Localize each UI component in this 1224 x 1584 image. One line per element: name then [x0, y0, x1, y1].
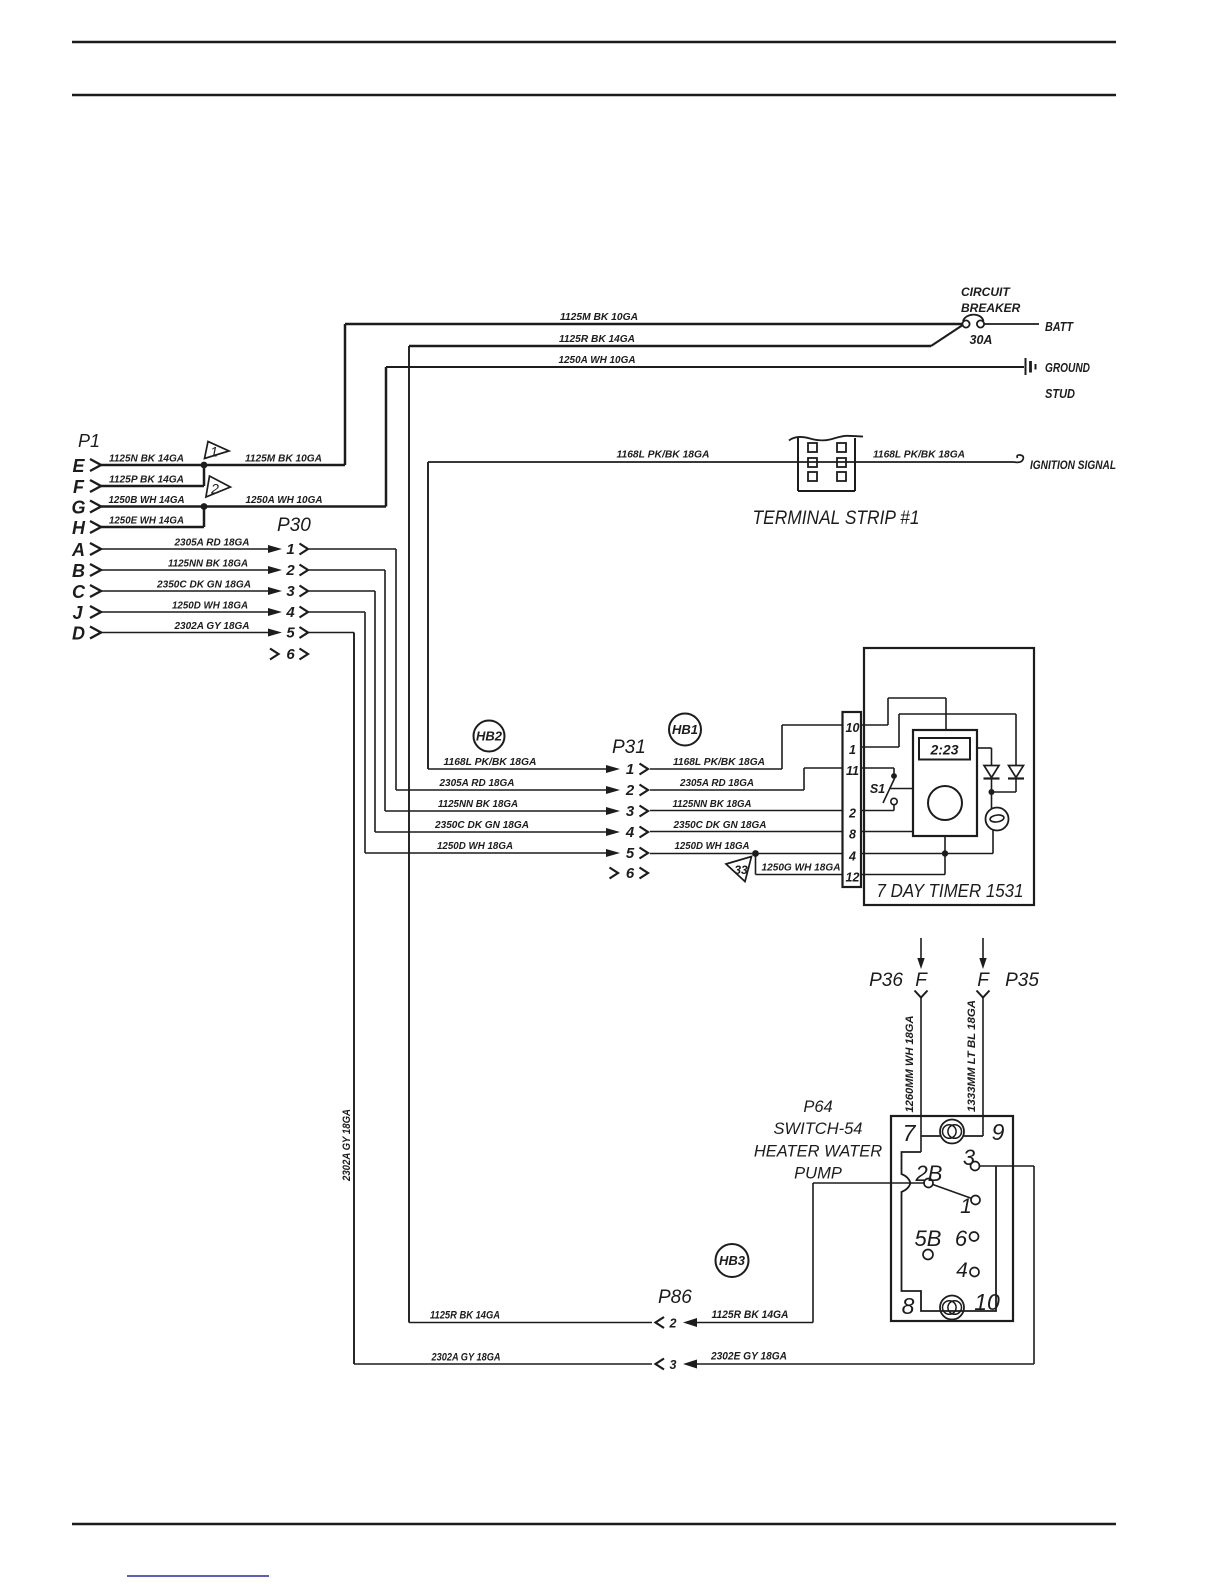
- svg-text:9: 9: [992, 1119, 1005, 1145]
- svg-text:HEATER WATER: HEATER WATER: [754, 1143, 882, 1161]
- svg-text:2305A RD 18GA: 2305A RD 18GA: [679, 777, 754, 789]
- svg-text:H: H: [72, 518, 86, 538]
- svg-text:5: 5: [286, 625, 295, 642]
- svg-text:1: 1: [849, 743, 856, 757]
- svg-text:1333MM LT BL 18GA: 1333MM LT BL 18GA: [966, 1000, 978, 1112]
- svg-text:11: 11: [846, 764, 859, 778]
- svg-text:2350C DK GN 18GA: 2350C DK GN 18GA: [434, 819, 529, 831]
- svg-text:P1: P1: [78, 431, 100, 451]
- svg-text:2350C DK GN 18GA: 2350C DK GN 18GA: [156, 579, 251, 591]
- svg-text:P35: P35: [1005, 970, 1039, 991]
- svg-text:30A: 30A: [970, 333, 993, 347]
- svg-text:F: F: [73, 477, 85, 497]
- svg-text:4: 4: [848, 850, 856, 864]
- svg-text:BREAKER: BREAKER: [961, 301, 1021, 315]
- svg-text:1168L PK/BK 18GA: 1168L PK/BK 18GA: [617, 449, 710, 461]
- svg-text:2: 2: [669, 1317, 677, 1331]
- svg-text:1: 1: [286, 541, 294, 558]
- svg-text:6: 6: [955, 1226, 968, 1251]
- svg-text:33: 33: [734, 863, 748, 877]
- svg-text:D: D: [72, 624, 85, 644]
- svg-text:10: 10: [846, 721, 860, 735]
- svg-text:GROUND: GROUND: [1045, 360, 1090, 375]
- svg-text:4: 4: [956, 1259, 968, 1282]
- svg-text:1125R BK 14GA: 1125R BK 14GA: [712, 1309, 789, 1321]
- svg-text:SWITCH-54: SWITCH-54: [774, 1120, 863, 1138]
- svg-text:2: 2: [848, 807, 856, 821]
- svg-text:2302A GY 18GA: 2302A GY 18GA: [341, 1109, 353, 1182]
- svg-text:1125R BK 14GA: 1125R BK 14GA: [430, 1310, 500, 1322]
- svg-text:HB3: HB3: [719, 1253, 746, 1268]
- svg-text:1250B WH 14GA: 1250B WH 14GA: [109, 494, 185, 506]
- svg-text:E: E: [72, 456, 85, 476]
- svg-text:1250D WH 18GA: 1250D WH 18GA: [437, 840, 513, 852]
- svg-text:1250D WH 18GA: 1250D WH 18GA: [675, 840, 750, 852]
- svg-text:1168L PK/BK 18GA: 1168L PK/BK 18GA: [444, 756, 537, 768]
- svg-text:6: 6: [626, 865, 635, 882]
- svg-text:J: J: [72, 603, 83, 623]
- svg-text:1: 1: [626, 761, 634, 778]
- svg-text:PUMP: PUMP: [794, 1165, 842, 1183]
- svg-text:2: 2: [625, 782, 635, 799]
- svg-text:P36: P36: [869, 970, 903, 991]
- svg-text:2305A RD 18GA: 2305A RD 18GA: [174, 537, 250, 549]
- svg-text:1125NN BK 18GA: 1125NN BK 18GA: [438, 798, 518, 810]
- svg-text:10: 10: [974, 1289, 1000, 1315]
- svg-text:1250G WH 18GA: 1250G WH 18GA: [762, 862, 841, 874]
- svg-text:3: 3: [963, 1145, 976, 1170]
- svg-text:P31: P31: [612, 737, 646, 758]
- svg-text:1125NN BK 18GA: 1125NN BK 18GA: [168, 558, 248, 570]
- svg-text:1250A WH 10GA: 1250A WH 10GA: [246, 494, 323, 506]
- svg-text:A: A: [71, 540, 85, 560]
- svg-text:4: 4: [625, 824, 635, 841]
- svg-text:2: 2: [285, 562, 295, 579]
- svg-text:3: 3: [286, 583, 295, 600]
- svg-text:3: 3: [670, 1358, 677, 1372]
- svg-text:8: 8: [849, 828, 856, 842]
- svg-text:2:23: 2:23: [929, 742, 958, 758]
- svg-text:1250A WH 10GA: 1250A WH 10GA: [559, 354, 636, 366]
- svg-text:2B: 2B: [915, 1161, 943, 1186]
- svg-text:P86: P86: [658, 1287, 692, 1308]
- svg-text:2305A RD 18GA: 2305A RD 18GA: [439, 777, 515, 789]
- svg-text:2302A GY 18GA: 2302A GY 18GA: [431, 1352, 501, 1364]
- svg-text:S1: S1: [870, 782, 885, 796]
- svg-text:1168L PK/BK 18GA: 1168L PK/BK 18GA: [873, 449, 965, 461]
- svg-text:1260MM WH 18GA: 1260MM WH 18GA: [904, 1015, 916, 1112]
- svg-text:1125NN BK 18GA: 1125NN BK 18GA: [673, 798, 752, 810]
- svg-text:6: 6: [286, 646, 295, 663]
- svg-text:1125R BK 14GA: 1125R BK 14GA: [559, 333, 635, 345]
- svg-text:B: B: [72, 561, 85, 581]
- svg-text:7: 7: [903, 1120, 917, 1146]
- svg-text:5: 5: [626, 845, 635, 862]
- svg-text:P64: P64: [803, 1098, 832, 1116]
- svg-text:IGNITION SIGNAL: IGNITION SIGNAL: [1030, 458, 1116, 472]
- svg-text:12: 12: [846, 871, 860, 885]
- svg-text:HB1: HB1: [672, 722, 698, 737]
- svg-text:F: F: [915, 970, 928, 991]
- svg-text:2350C DK GN 18GA: 2350C DK GN 18GA: [673, 819, 767, 831]
- svg-text:G: G: [71, 498, 85, 518]
- svg-text:8: 8: [902, 1293, 915, 1319]
- svg-text:3: 3: [626, 803, 635, 820]
- svg-text:CIRCUIT: CIRCUIT: [961, 285, 1011, 299]
- svg-text:5B: 5B: [915, 1226, 942, 1251]
- svg-text:1125P BK 14GA: 1125P BK 14GA: [109, 474, 184, 486]
- svg-text:1: 1: [960, 1195, 972, 1218]
- svg-text:TERMINAL STRIP #1: TERMINAL STRIP #1: [753, 508, 920, 529]
- svg-text:P30: P30: [277, 515, 311, 536]
- svg-text:STUD: STUD: [1045, 386, 1076, 401]
- svg-text:1: 1: [210, 444, 218, 460]
- svg-text:1125N BK 14GA: 1125N BK 14GA: [109, 453, 184, 465]
- svg-text:1125M BK 10GA: 1125M BK 10GA: [560, 311, 638, 323]
- svg-text:2302E GY 18GA: 2302E GY 18GA: [710, 1351, 787, 1363]
- svg-text:2302A GY 18GA: 2302A GY 18GA: [174, 620, 250, 632]
- svg-text:C: C: [72, 582, 86, 602]
- svg-text:1168L PK/BK 18GA: 1168L PK/BK 18GA: [673, 756, 765, 768]
- svg-text:1250D WH 18GA: 1250D WH 18GA: [172, 600, 248, 612]
- svg-text:4: 4: [285, 604, 295, 621]
- svg-text:F: F: [977, 970, 990, 991]
- svg-text:7 DAY TIMER 1531: 7 DAY TIMER 1531: [877, 881, 1024, 901]
- svg-text:HB2: HB2: [476, 729, 503, 744]
- svg-text:1125M BK 10GA: 1125M BK 10GA: [245, 453, 322, 465]
- svg-text:2: 2: [210, 481, 219, 497]
- svg-text:BATT: BATT: [1045, 319, 1074, 334]
- svg-text:1250E WH 14GA: 1250E WH 14GA: [109, 515, 184, 527]
